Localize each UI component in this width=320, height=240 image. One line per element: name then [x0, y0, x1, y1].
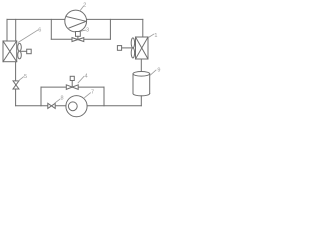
svg-text:3: 3 — [86, 28, 89, 34]
svg-text:2: 2 — [83, 3, 86, 9]
left fan blades — [18, 43, 22, 51]
wire compressor bypass bottom — [51, 38, 110, 40]
valve V3 bowtie — [72, 38, 84, 42]
expansion valve vertical bowtie — [13, 81, 19, 89]
wire compressor bypass right leg — [109, 19, 111, 39]
condenser C rect — [136, 37, 149, 59]
wire pump bypass right leg — [103, 87, 105, 106]
svg-text:4: 4 — [85, 73, 88, 79]
wire pump bypass left leg — [40, 87, 42, 106]
wire left column evaporator to bottom — [15, 62, 17, 106]
right fan motor box — [117, 46, 121, 51]
wire left riser b — [15, 19, 17, 41]
leader for label 7 — [84, 93, 91, 98]
left fan motor box — [27, 49, 32, 54]
leader for label 1 condenser — [149, 34, 155, 38]
wire bottom rail — [16, 105, 142, 107]
leader for label 9 cylinder — [150, 70, 156, 76]
valve V3 actuator box — [76, 32, 81, 37]
leader for label 5 — [18, 77, 24, 82]
wire pump bypass top — [41, 86, 104, 88]
svg-text:5: 5 — [24, 74, 27, 80]
compressor U2 circle — [65, 10, 87, 32]
wire cylinder to bottom rail — [140, 96, 142, 106]
leader for label 4 — [78, 76, 85, 83]
condenser C cross — [136, 37, 149, 59]
valve V3 stem — [77, 36, 79, 39]
svg-text:7: 7 — [91, 90, 94, 96]
receiver cylinder top ellipse — [133, 72, 150, 77]
svg-text:6: 6 — [38, 27, 41, 33]
valve V4 bowtie — [66, 85, 78, 90]
pump P7 circle — [66, 96, 87, 117]
wire right drop to condenser — [142, 19, 144, 37]
svg-text:8: 8 — [61, 96, 64, 102]
compressor U2 internal wedge — [67, 17, 87, 28]
evaporator E6 rect — [3, 41, 17, 62]
wire right fan shaft — [122, 47, 132, 49]
right fan blades — [131, 38, 134, 48]
svg-text:9: 9 — [157, 67, 160, 73]
wire condenser to cylinder — [140, 59, 142, 72]
receiver cylinder body — [133, 74, 150, 94]
pump P7 inner circle — [68, 102, 77, 111]
wire left riser a — [6, 19, 8, 41]
leader for label 6 — [18, 30, 38, 43]
leader for label 8 — [55, 99, 60, 103]
wire top rail — [7, 18, 143, 20]
wire left fan shaft — [21, 50, 27, 52]
receiver cylinder bottom arc — [133, 94, 150, 96]
valve V4 actuator box — [70, 76, 74, 80]
wire compressor bypass left leg — [50, 19, 52, 39]
leader for label 2 — [80, 6, 84, 11]
svg-text:1: 1 — [154, 33, 157, 39]
evaporator E6 cross — [3, 41, 17, 62]
valve V4 stem — [71, 81, 73, 88]
bottom valve bowtie — [48, 103, 55, 108]
leader for label 3 — [81, 30, 86, 31]
